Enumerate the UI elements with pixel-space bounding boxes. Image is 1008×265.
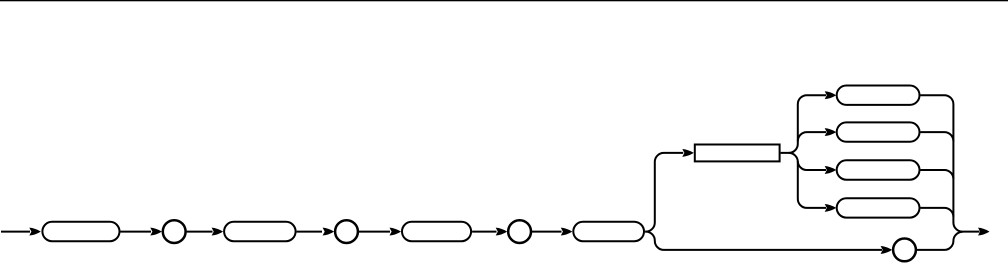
wire circle1 to rect2 <box>187 231 213 233</box>
branch box A <box>837 86 920 105</box>
wire rect3 to circle3 <box>472 231 496 233</box>
wire branch up from rect4 to subrule rect <box>645 153 683 232</box>
token circle 3 <box>508 220 531 243</box>
arrowhead exit <box>978 228 990 236</box>
arrowhead into circle1 <box>150 228 162 236</box>
wire row A to merge and exit <box>921 95 980 231</box>
arrowhead into rect2 <box>212 228 224 236</box>
token circle 1 <box>163 220 186 243</box>
wire fork to row C <box>798 161 826 170</box>
branch box B <box>837 122 920 141</box>
arrowhead into branch box C <box>825 166 837 174</box>
arrowhead into skip circle <box>881 246 893 254</box>
arrowhead into rect3 <box>390 228 402 236</box>
token circle 2 <box>335 220 358 243</box>
token circle skip <box>893 239 916 262</box>
wire entry line <box>1 231 30 233</box>
wire fork to row B <box>798 132 826 141</box>
wire circle3 to rect4 <box>532 231 562 233</box>
arrowhead into branch box B <box>825 128 837 136</box>
arrowhead into circle3 <box>496 228 508 236</box>
wire circle2 to rect3 <box>359 231 390 233</box>
terminal box 1 <box>42 222 119 241</box>
branch box C <box>837 160 920 179</box>
arrowhead into branch box D <box>825 204 837 212</box>
arrowhead entry <box>29 228 41 236</box>
wire row D to merge <box>921 208 954 217</box>
nonterminal rect <box>695 145 780 162</box>
wire row C to merge <box>921 170 954 179</box>
terminal box 3 <box>402 222 471 241</box>
arrowhead into rect4 <box>561 228 573 236</box>
wire rect2 to circle2 <box>297 231 322 233</box>
wire rect1 to circle1 <box>121 231 152 233</box>
wire skip path lower line <box>645 232 882 250</box>
terminal box 2 <box>224 222 296 241</box>
arrowhead into circle2 <box>323 228 335 236</box>
wire fork after subrule rect to row A <box>781 95 826 153</box>
terminal box 4 <box>573 222 644 241</box>
wire fork down to row D <box>789 153 826 208</box>
branch box D <box>837 198 920 217</box>
arrowhead into branch box A <box>825 91 837 99</box>
wire row B to merge <box>921 132 954 141</box>
arrowhead into nonterminal rect <box>682 149 694 157</box>
wire skip circle to exit merge <box>917 232 963 250</box>
top horizontal rule <box>0 0 1008 1</box>
